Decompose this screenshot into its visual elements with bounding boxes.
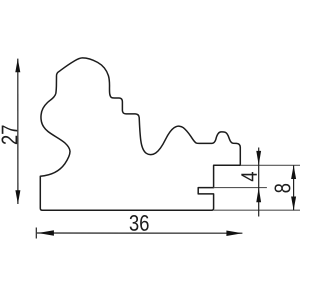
dimension 36 right arrow <box>226 231 242 237</box>
extension line rabbet ledge y=165.3 <box>240 164 300 166</box>
dimension 36 line <box>37 232 242 234</box>
dimension 27 line <box>17 59 19 204</box>
dimension 8 bottom arrow (inside, pointing down) <box>291 197 296 211</box>
dimension 8 text <box>274 184 290 193</box>
dimension 27 text <box>1 125 17 144</box>
extension line bottom y=210.2 <box>214 209 300 211</box>
dimension 36 text <box>130 215 149 231</box>
dimension 4 line <box>258 148 260 217</box>
dimension 8 line <box>293 165 295 210</box>
extension line tab top y=187.6 <box>214 187 267 189</box>
dimension 36 left arrow <box>38 230 54 236</box>
dimension 4 bottom arrow (outside, pointing up) <box>256 188 261 203</box>
dimension 4 text <box>241 172 256 181</box>
dimension 27 bottom arrow <box>15 190 20 204</box>
moulding profile outline <box>40 58 240 210</box>
dimension 27 top arrow <box>15 59 20 73</box>
dimension 36 witness tick left <box>35 228 37 239</box>
dimension 8 top arrow (inside, pointing up) <box>291 165 296 179</box>
dimension 4 top arrow (outside, pointing down) <box>256 151 261 165</box>
